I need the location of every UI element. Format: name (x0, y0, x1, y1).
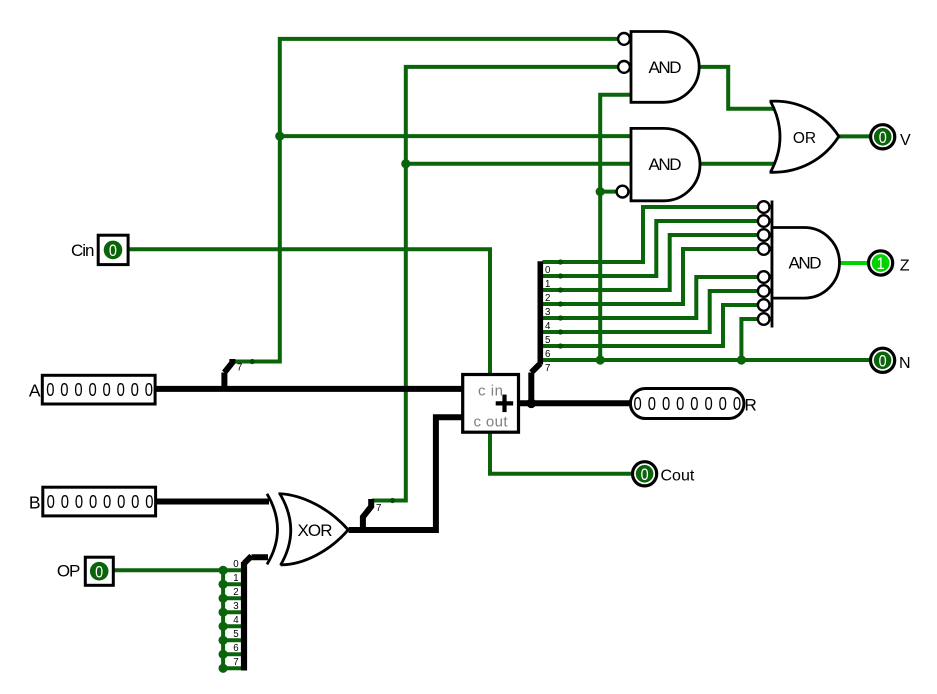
svg-text:c in: c in (478, 383, 503, 400)
splitter R riser (528, 373, 534, 404)
svg-text:0: 0 (88, 379, 96, 400)
wire bit3 staircase (543, 249, 759, 304)
bubble U4 input3 (758, 229, 770, 241)
wire end nub R-splitter bit3 (558, 301, 563, 306)
junction at AND2 input2 (401, 159, 410, 168)
svg-text:7: 7 (233, 657, 238, 668)
svg-text:7: 7 (237, 363, 242, 374)
wire adder c-out to Cout pin (490, 432, 631, 474)
svg-text:5: 5 (545, 335, 550, 346)
svg-text:1: 1 (233, 573, 238, 584)
bus adder out to R register (519, 400, 631, 406)
wire OP splitter stub3 (223, 610, 242, 614)
wire AND2 input1 (280, 134, 631, 138)
A-tap riser (221, 373, 227, 391)
wire bit4 staircase (543, 277, 759, 318)
junction OP fan 3 (219, 608, 228, 617)
bubble U4 input4 (758, 243, 770, 255)
svg-text:0: 0 (60, 379, 68, 400)
bubble U4 input6 (758, 285, 770, 297)
wire R7 vertical (600, 95, 631, 360)
wire end nub R-splitter bit6 (558, 343, 563, 348)
wire bit0 staircase (543, 207, 759, 262)
svg-text:6: 6 (233, 643, 238, 654)
wire AND2 input2 (406, 162, 631, 166)
svg-text:0: 0 (634, 393, 642, 414)
svg-text:5: 5 (233, 629, 238, 640)
OP splitter bit labels (233, 559, 239, 668)
svg-text:0: 0 (109, 242, 117, 260)
svg-text:0: 0 (47, 491, 55, 512)
svg-text:XOR: XOR (298, 521, 333, 540)
svg-text:0: 0 (648, 393, 656, 414)
svg-text:0: 0 (879, 352, 887, 370)
A-tap diagonal (224, 359, 232, 373)
svg-text:OR: OR (793, 130, 816, 147)
svg-text:0: 0 (103, 491, 111, 512)
wire OP splitter stub6 (223, 652, 242, 656)
svg-text:AND: AND (649, 58, 682, 77)
svg-text:0: 0 (75, 491, 83, 512)
svg-text:0: 0 (95, 563, 103, 581)
svg-text:c out: c out (474, 414, 509, 431)
OP splitter bus stub (252, 554, 269, 560)
junction OP fan 2 (219, 594, 228, 603)
bubble U1 input2 (618, 61, 630, 73)
svg-text:0: 0 (131, 491, 139, 512)
svg-text:R: R (745, 396, 757, 415)
wire OP splitter stub4 (223, 624, 242, 628)
svg-text:OP: OP (57, 562, 81, 581)
svg-text:V: V (900, 132, 911, 149)
junction OP fan 0 (219, 566, 228, 575)
wire B7X: XOR-tap up vertical to AND1 second input (372, 67, 618, 501)
splitter R diagonal (531, 364, 540, 373)
svg-text:0: 0 (145, 491, 153, 512)
svg-text:0: 0 (719, 393, 727, 414)
wire end nub A-tap (250, 359, 255, 364)
svg-text:1: 1 (877, 255, 885, 273)
splitter R bit labels (545, 265, 551, 374)
svg-text:0: 0 (704, 393, 712, 414)
svg-text:0: 0 (233, 559, 239, 570)
svg-text:N: N (899, 355, 911, 372)
wire OP to splitter (113, 570, 223, 668)
junction OP fan 5 (219, 636, 228, 645)
wire R7 stub to AND2 bubble (600, 190, 616, 194)
bubble U4 input8 (758, 313, 770, 325)
wire bit1 staircase (543, 221, 759, 276)
bubble U4 input7 (758, 299, 770, 311)
svg-text:AND: AND (649, 155, 682, 174)
wire end nub XOR-tap (390, 498, 395, 503)
wire end nub R-splitter bit0 (558, 259, 563, 264)
wire OP splitter stub7 (223, 666, 242, 670)
wire end nub adder c-in (487, 375, 492, 380)
svg-text:0: 0 (117, 379, 125, 400)
svg-text:0: 0 (545, 265, 551, 276)
svg-text:0: 0 (89, 491, 97, 512)
wire end nub R-splitter bit1 (558, 273, 563, 278)
wire OP splitter stub0 (223, 568, 242, 572)
svg-text:2: 2 (233, 587, 238, 598)
svg-text:0: 0 (131, 379, 139, 400)
svg-text:0: 0 (690, 393, 698, 414)
svg-text:6: 6 (545, 349, 550, 360)
svg-text:7: 7 (545, 363, 550, 374)
wire end nub adder c-out (487, 427, 492, 432)
junction R7 to AND2 bubble (596, 187, 605, 196)
wire OR out to V pin (839, 134, 870, 138)
svg-text:0: 0 (74, 379, 82, 400)
svg-text:Z: Z (900, 257, 910, 274)
wire N line (R bit7 to N pin) (543, 358, 870, 362)
OP splitter diagonal (244, 556, 252, 564)
wire AND2 out to OR input2 (699, 162, 775, 166)
wire OP splitter stub1 (223, 582, 242, 586)
wire Z out (bright = 1) (839, 261, 868, 265)
svg-text:Cin: Cin (71, 241, 95, 260)
wire bit6 staircase (543, 305, 759, 346)
svg-text:2: 2 (545, 293, 550, 304)
svg-text:0: 0 (46, 379, 54, 400)
svg-text:0: 0 (676, 393, 684, 414)
bubble U1 input1 (618, 33, 630, 45)
plus symbol (496, 395, 514, 413)
junction at AND2 input1 (275, 132, 284, 141)
bubble U4 input1 (758, 201, 770, 213)
svg-text:0: 0 (61, 491, 69, 512)
svg-text:A: A (29, 381, 41, 401)
wire AND1 out to OR input1 (699, 67, 775, 109)
svg-text:0: 0 (879, 129, 887, 147)
U4 input line (771, 201, 774, 328)
XOR-tap riser (363, 499, 371, 531)
wire end nub R-splitter bit5 (558, 329, 563, 334)
bubble U2 input3 (617, 186, 629, 198)
bubble U4 input5 (758, 271, 770, 283)
bus XOR out to adder B input (349, 417, 463, 530)
svg-text:0: 0 (102, 379, 110, 400)
junction R7 on N line (596, 355, 605, 364)
splitter R spine (537, 261, 543, 364)
svg-text:3: 3 (233, 601, 238, 612)
junction OP fan 4 (219, 622, 228, 631)
wire end nub R-splitter bit4 (558, 315, 563, 320)
wire bit7 branch to AND-Z input8 (741, 319, 758, 360)
junction bus at splitter riser (527, 399, 537, 409)
wire OP splitter stub2 (223, 596, 242, 600)
svg-text:B: B (29, 493, 41, 513)
junction OP fan 7 (219, 664, 228, 673)
wire A7: A-tap up left vertical to AND1 top input (233, 39, 618, 362)
svg-text:0: 0 (733, 393, 741, 414)
junction OP fan 6 (219, 650, 228, 659)
svg-text:0: 0 (641, 466, 649, 484)
junction OP fan 1 (219, 580, 228, 589)
svg-text:0: 0 (117, 491, 125, 512)
svg-text:4: 4 (545, 321, 551, 332)
wire bit2 staircase (543, 235, 759, 290)
svg-text:AND: AND (789, 254, 822, 273)
wire bit5 staircase (543, 291, 759, 332)
svg-text:Cout: Cout (661, 468, 695, 485)
svg-text:1: 1 (545, 279, 550, 290)
svg-text:4: 4 (233, 615, 239, 626)
svg-text:0: 0 (662, 393, 670, 414)
wire end nub R-splitter bit2 (558, 287, 563, 292)
OP splitter spine (241, 562, 247, 671)
bubble U4 input2 (758, 215, 770, 227)
bus A to adder (155, 386, 463, 392)
junction bit7 branch (737, 355, 746, 364)
svg-text:7: 7 (376, 503, 381, 514)
wire OP splitter stub5 (223, 638, 242, 642)
bus B to XOR (156, 499, 270, 505)
wire Cin to adder c-in (128, 249, 490, 374)
svg-text:0: 0 (145, 379, 153, 400)
svg-text:3: 3 (545, 307, 550, 318)
